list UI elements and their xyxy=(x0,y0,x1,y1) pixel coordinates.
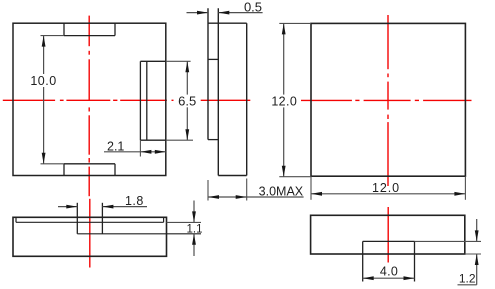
svg-text:0.5: 0.5 xyxy=(244,0,262,15)
svg-text:6.5: 6.5 xyxy=(178,94,196,109)
svg-text:1.2: 1.2 xyxy=(459,272,476,286)
svg-text:1.8: 1.8 xyxy=(125,194,144,208)
svg-text:12.0: 12.0 xyxy=(372,181,400,195)
svg-text:10.0: 10.0 xyxy=(30,74,56,88)
svg-text:3.0MAX: 3.0MAX xyxy=(259,185,304,199)
svg-text:12.0: 12.0 xyxy=(271,95,297,109)
svg-text:2.1: 2.1 xyxy=(107,140,124,154)
svg-text:1.1: 1.1 xyxy=(187,224,203,236)
svg-text:4.0: 4.0 xyxy=(380,265,398,279)
